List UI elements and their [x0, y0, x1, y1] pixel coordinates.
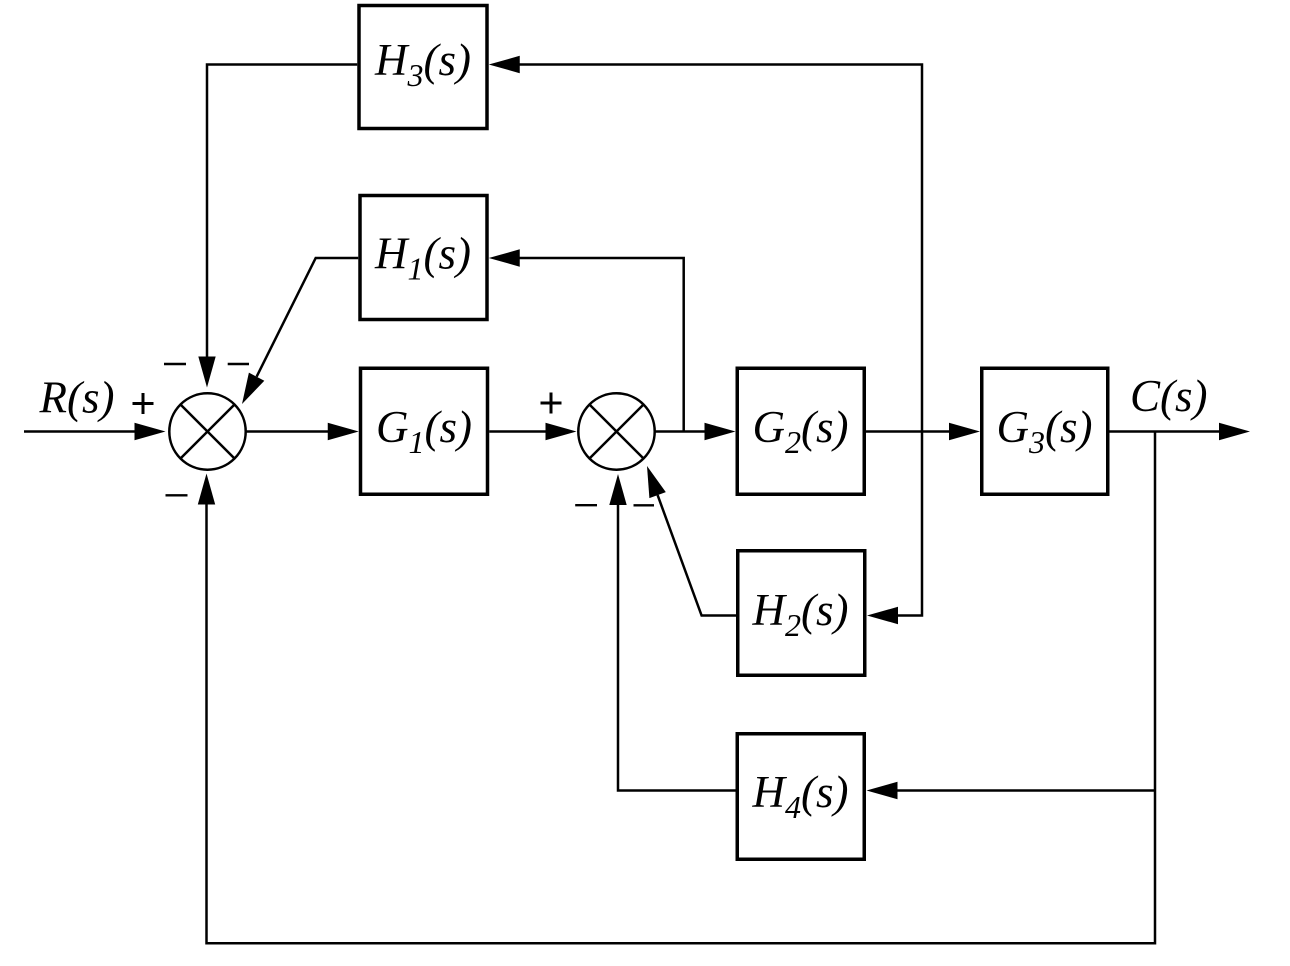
- svg-text:G2(s): G2(s): [753, 402, 849, 460]
- svg-text:H4(s): H4(s): [752, 767, 849, 825]
- svg-text:H3(s): H3(s): [374, 35, 471, 93]
- svg-text:G3(s): G3(s): [997, 402, 1093, 460]
- svg-text:H2(s): H2(s): [752, 585, 849, 643]
- svg-text:R(s): R(s): [39, 372, 115, 422]
- svg-text:G1(s): G1(s): [376, 402, 472, 460]
- svg-text:H1(s): H1(s): [374, 229, 471, 287]
- svg-text:C(s): C(s): [1130, 371, 1208, 421]
